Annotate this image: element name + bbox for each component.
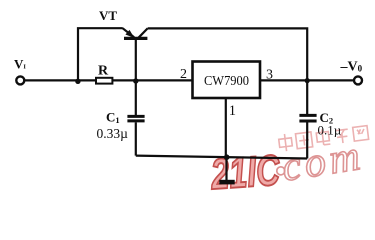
ground symbol [219, 157, 234, 184]
svg-text:VT: VT [99, 8, 117, 23]
svg-text:R: R [98, 63, 109, 78]
wire pin 3 to output [260, 79, 354, 81]
svg-text:CW7900: CW7900 [204, 74, 249, 89]
watermark .com script [273, 133, 367, 192]
value label 0.33u [97, 126, 129, 141]
svg-text:2: 2 [180, 67, 187, 82]
wire pin 1 lead [225, 98, 227, 157]
value label 0.1u [318, 123, 342, 138]
pin 3 label [266, 67, 273, 82]
node junction output riser [305, 78, 310, 83]
svg-text:21IC: 21IC [209, 147, 282, 199]
resistor R [96, 63, 112, 83]
capacitor C2 [299, 80, 333, 158]
pin 2 label [180, 67, 187, 82]
watermark 21IC.com [209, 147, 282, 199]
node junction base / C1 [133, 78, 138, 83]
svg-text:0.33µ: 0.33µ [97, 126, 129, 141]
wire bottom ground rail [136, 156, 307, 159]
capacitor C1 [106, 80, 145, 155]
watermark zhongguo dianziwang stamp [278, 124, 369, 152]
svg-text:1: 1 [229, 103, 236, 119]
wire left riser and top emitter wire [78, 28, 123, 80]
svg-text:C1: C1 [106, 110, 120, 126]
wire main input rail [25, 79, 193, 81]
node junction ground [224, 154, 230, 160]
transistor VT (PNP pass transistor) [99, 8, 148, 80]
terminal -Vo output circle [340, 60, 363, 85]
svg-text:0.1µ: 0.1µ [318, 123, 342, 138]
svg-text:VI: VI [14, 57, 26, 72]
wire top collector rail and right riser [148, 28, 308, 80]
svg-text:–V0: –V0 [340, 60, 363, 75]
node junction left riser [75, 79, 80, 84]
pin 1 label [229, 103, 236, 119]
regulator U1 CW7900 [193, 62, 261, 99]
terminal Vi input circle [14, 57, 26, 85]
